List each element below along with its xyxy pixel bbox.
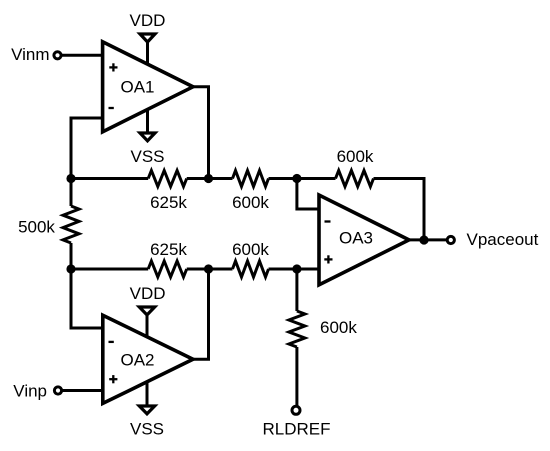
wire node to OA3 - input xyxy=(297,179,319,210)
node junction row1 OA1 output xyxy=(204,174,213,183)
wire Vinp to OA2 + input xyxy=(63,389,103,392)
wire OA1 - input to left rail xyxy=(71,118,103,206)
svg-text:OA1: OA1 xyxy=(120,78,154,97)
resistor 600k feedback OA3 xyxy=(336,171,374,187)
svg-text:VDD: VDD xyxy=(130,11,166,30)
terminal Vinm xyxy=(54,52,61,59)
svg-text:Vinm: Vinm xyxy=(11,45,49,64)
node junction row2 right xyxy=(292,264,301,273)
wire row1 between 625k and 600k xyxy=(187,177,233,180)
wire VDD to OA2 xyxy=(146,315,149,337)
svg-text:600k: 600k xyxy=(232,193,269,212)
wire Vinm to OA1 + input xyxy=(62,54,103,57)
svg-text:Vpaceout: Vpaceout xyxy=(467,230,539,249)
resistor 600k RLDREF xyxy=(289,311,305,347)
svg-text:VSS: VSS xyxy=(130,420,164,439)
wire VDD to OA1 xyxy=(146,43,149,65)
wire OA2 output up to row2 xyxy=(193,269,209,359)
resistor 600k row1 xyxy=(233,171,269,187)
VDD symbol OA1 xyxy=(140,34,155,42)
svg-text:Vinp: Vinp xyxy=(13,382,47,401)
svg-text:OA3: OA3 xyxy=(339,229,373,248)
svg-text:625k: 625k xyxy=(150,240,187,259)
wire row2 right segment to node xyxy=(269,268,297,271)
terminal Vinp xyxy=(54,387,61,394)
wire OA1 to VSS xyxy=(146,109,149,134)
svg-text:600k: 600k xyxy=(320,318,357,337)
wire 600k resistor to RLDREF terminal xyxy=(295,347,298,406)
resistor 625k row2 xyxy=(148,261,187,277)
wire node to OA3 + input xyxy=(297,268,319,271)
svg-text:500k: 500k xyxy=(18,218,55,237)
op-amp OA3 xyxy=(319,195,409,285)
node junction row1 right xyxy=(292,174,301,183)
svg-text:600k: 600k xyxy=(337,147,374,166)
op-amp OA2 xyxy=(103,315,193,403)
svg-text:VSS: VSS xyxy=(130,147,164,166)
node junction row2 OA2 output xyxy=(204,264,213,273)
svg-text:VDD: VDD xyxy=(130,284,166,303)
VDD symbol OA2 xyxy=(139,307,154,315)
resistor 625k row1 xyxy=(148,171,187,187)
wire left rail 500k to OA2 - input xyxy=(71,243,103,328)
svg-text:RLDREF: RLDREF xyxy=(262,420,330,439)
wire feedback 600k to OA3 output xyxy=(374,179,425,241)
resistor 600k row2 xyxy=(233,261,269,277)
resistor 500k xyxy=(63,206,79,243)
wire node down to 600k RLDREF resistor xyxy=(295,269,298,311)
VSS symbol OA1 xyxy=(140,133,155,141)
wire OA3 output to Vpaceout xyxy=(409,238,447,241)
node junction row1 left xyxy=(66,174,75,183)
svg-text:OA2: OA2 xyxy=(120,351,154,370)
wire row1 right segment to node xyxy=(269,177,297,180)
wire row2 left segment xyxy=(71,268,148,271)
wire row2 between 625k and 600k xyxy=(187,268,233,271)
svg-text:625k: 625k xyxy=(150,193,187,212)
wire row1 left segment xyxy=(71,177,148,180)
node junction row2 left xyxy=(66,264,75,273)
terminal Vpaceout xyxy=(447,236,454,243)
wire node to feedback 600k xyxy=(297,177,336,180)
terminal RLDREF xyxy=(292,406,300,414)
op-amp OA1 xyxy=(103,42,193,132)
svg-text:600k: 600k xyxy=(232,240,269,259)
wire OA2 to VSS xyxy=(146,382,149,407)
VSS symbol OA2 xyxy=(139,406,154,414)
node junction OA3 output xyxy=(419,235,428,244)
wire OA1 output down to row1 xyxy=(193,87,209,179)
